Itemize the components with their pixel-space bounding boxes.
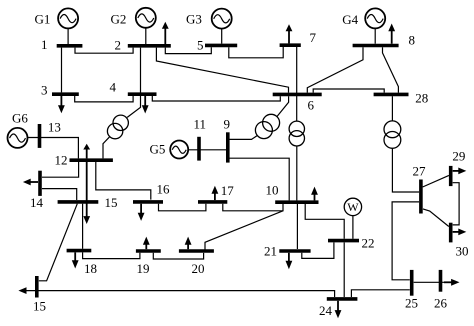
bus 29 xyxy=(449,166,453,186)
bus 2 xyxy=(128,44,171,48)
load arrow down at bus 21 xyxy=(288,253,290,262)
svg-text:16: 16 xyxy=(157,182,171,197)
wire line 16-17 xyxy=(159,204,206,211)
wire bus 6 to transformer 6-9 xyxy=(277,96,289,116)
svg-text:G6: G6 xyxy=(12,111,28,126)
transformer 4-12 xyxy=(107,115,128,139)
svg-text:G3: G3 xyxy=(186,12,202,27)
wire transformer 6-10 to bus 10 xyxy=(296,146,298,200)
wire line 2-6 diagonal xyxy=(156,48,288,93)
load arrow left at bus 14 xyxy=(30,181,38,183)
svg-text:19: 19 xyxy=(137,261,150,276)
svg-text:11: 11 xyxy=(194,117,207,132)
load arrow down at bus 4 xyxy=(144,96,146,106)
wire line 12-16 xyxy=(96,162,151,200)
bus 3 xyxy=(52,92,79,96)
wire line 24-25 xyxy=(351,290,409,297)
wire line 9-10 xyxy=(228,158,289,200)
load arrow down at bus 24 xyxy=(337,301,339,311)
bus 16 xyxy=(133,200,163,204)
svg-text:5: 5 xyxy=(197,37,204,52)
load arrow down bus 12 through bus 15 xyxy=(86,162,88,217)
wire line 25-27 xyxy=(392,202,419,280)
bus 18 xyxy=(67,249,92,253)
svg-text:20: 20 xyxy=(192,261,205,276)
wire line 14-15 xyxy=(42,189,77,200)
svg-text:G4: G4 xyxy=(342,12,358,27)
bus 24 xyxy=(327,297,358,301)
bus 25 xyxy=(410,270,414,296)
generator G3 xyxy=(212,9,232,29)
load arrow up at bus 12 xyxy=(86,149,88,158)
svg-text:24: 24 xyxy=(319,303,333,318)
wire G2 to bus 2 xyxy=(145,28,147,44)
wire line 6-28 xyxy=(313,89,384,93)
bus 19 xyxy=(136,249,161,253)
svg-text:30: 30 xyxy=(456,244,469,259)
svg-text:4: 4 xyxy=(110,80,117,95)
load arrow up at bus 19 xyxy=(145,244,147,249)
wire line 4-6 xyxy=(152,96,280,101)
wire bus 28 to transformer 28-27 xyxy=(391,96,393,121)
meter W circle xyxy=(344,198,361,215)
svg-text:28: 28 xyxy=(415,91,428,106)
wire line 10-21 xyxy=(296,204,298,249)
bus 15 bottom xyxy=(35,276,39,298)
bus 20 xyxy=(179,249,214,253)
wire line 2-5 xyxy=(165,47,211,53)
bus 8 xyxy=(353,44,399,48)
bus 21 xyxy=(279,249,310,253)
transformer 6-9 xyxy=(255,114,279,138)
bus 4 xyxy=(128,92,157,96)
generator G6 xyxy=(8,128,28,148)
svg-text:10: 10 xyxy=(266,183,279,198)
load arrow up at bus 17 xyxy=(214,193,216,200)
wire transformer 6-9 to bus 9 xyxy=(228,136,257,140)
load arrow down at bus 16 xyxy=(140,204,142,214)
wire line 3-4 xyxy=(75,96,133,102)
wire line 10-22 xyxy=(305,204,344,239)
svg-text:1: 1 xyxy=(41,37,48,52)
transformer 28-27 xyxy=(384,121,401,148)
load arrow down at bus 18 xyxy=(74,252,76,261)
load arrow right at bus 30 xyxy=(453,231,459,233)
wire transformer 4-12 to bus 12 xyxy=(103,137,110,159)
svg-text:9: 9 xyxy=(224,117,231,132)
wire line 5-7 xyxy=(229,47,283,58)
bus 13 xyxy=(38,124,42,148)
wire line 15 to bus 15 bottom diagonal xyxy=(39,204,78,281)
wire G1 to bus 1 xyxy=(67,28,69,44)
svg-text:8: 8 xyxy=(409,33,416,48)
svg-text:G1: G1 xyxy=(35,12,51,27)
bus 5 xyxy=(205,44,237,48)
load arrow up at bus 2 xyxy=(164,28,166,44)
wire line 10-20 diagonal xyxy=(205,211,283,250)
svg-text:26: 26 xyxy=(434,296,448,311)
bus 22 xyxy=(328,239,359,243)
bus 6 xyxy=(273,93,322,97)
svg-text:G2: G2 xyxy=(111,12,127,27)
generator G2 xyxy=(136,8,156,28)
load arrow up at bus 20 xyxy=(187,244,189,249)
bus 26 xyxy=(439,270,443,292)
load arrow up at bus 10 xyxy=(314,194,316,200)
svg-text:21: 21 xyxy=(264,244,277,259)
wire bus 6 to transformer 6-10 xyxy=(296,94,298,121)
wire line 2-4 crossing bus 4 to transformer xyxy=(127,48,140,118)
bus 28 xyxy=(374,93,409,97)
wire line 8-28 diagonal xyxy=(383,47,399,92)
svg-text:25: 25 xyxy=(405,296,418,311)
svg-text:12: 12 xyxy=(55,153,68,168)
wire long line 15-24 with left arrow xyxy=(26,291,335,297)
svg-text:W: W xyxy=(347,200,359,214)
bus 7 xyxy=(280,43,301,47)
generator G5 xyxy=(170,141,188,159)
load arrow right at bus 29 xyxy=(453,170,459,172)
svg-text:27: 27 xyxy=(413,164,427,179)
wire line 19-20 xyxy=(153,253,203,259)
svg-text:15: 15 xyxy=(33,299,46,314)
bus 17 xyxy=(198,200,227,204)
svg-text:18: 18 xyxy=(84,261,97,276)
svg-text:29: 29 xyxy=(452,149,465,164)
bus 11 xyxy=(197,137,201,161)
svg-text:13: 13 xyxy=(48,120,61,135)
bus 12 xyxy=(70,158,113,162)
svg-text:17: 17 xyxy=(221,183,235,198)
wire W to bus 22 xyxy=(352,216,354,239)
svg-text:22: 22 xyxy=(362,236,375,251)
wire line 25-26 with right arrow xyxy=(414,281,444,283)
wire line 8-6 diagonal xyxy=(307,47,363,92)
wire line 15-18 xyxy=(82,204,84,249)
generator G1 xyxy=(58,8,78,28)
svg-text:G5: G5 xyxy=(150,142,166,157)
wire line 1-3 xyxy=(61,48,63,93)
bus 1 xyxy=(57,44,83,48)
bus 9 xyxy=(226,132,230,162)
wire transformer 28-27 to bus 27 xyxy=(392,148,419,192)
bus 15 xyxy=(58,200,99,204)
wire line 18-19 xyxy=(83,252,140,258)
svg-text:14: 14 xyxy=(30,195,44,210)
wire G5 to bus 11 to bus 9 xyxy=(188,149,228,151)
wire line 1-2 xyxy=(75,48,133,54)
wire G6 to bus 13 to bus 12 xyxy=(28,138,79,159)
svg-text:2: 2 xyxy=(115,38,122,53)
load arrow up at bus 8 xyxy=(391,31,393,44)
load arrow down at bus 3 xyxy=(60,96,62,106)
wire line 7-6 vertical xyxy=(296,47,298,94)
load arrow up at bus 7 xyxy=(288,31,290,44)
svg-text:3: 3 xyxy=(41,83,48,98)
svg-text:6: 6 xyxy=(308,98,315,113)
transformer 6-10 xyxy=(289,121,304,146)
wire line 12-14 xyxy=(42,162,79,177)
svg-text:15: 15 xyxy=(105,195,118,210)
bus 30 xyxy=(449,223,453,243)
bus 10 xyxy=(275,200,318,204)
wire line 27-29 diagonal xyxy=(423,175,449,187)
wire line 29-30 xyxy=(453,183,459,225)
wire line 21-22 xyxy=(302,243,334,259)
wire line 17-10 xyxy=(223,204,283,211)
bus 14 xyxy=(38,171,42,196)
wire G3 to bus 5 xyxy=(221,29,223,44)
wire line 22-24 xyxy=(343,243,345,298)
wire G4 to bus 8 xyxy=(374,28,376,43)
svg-text:7: 7 xyxy=(310,30,317,45)
wire line 27-30 diagonal xyxy=(423,209,449,227)
generator G4 xyxy=(365,8,385,28)
bus 27 xyxy=(419,180,423,214)
